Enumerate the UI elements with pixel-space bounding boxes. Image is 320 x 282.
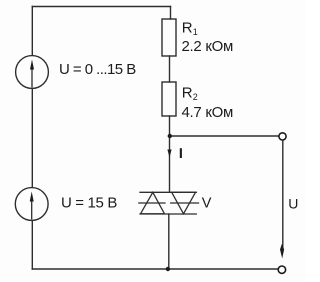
wire top rail (32, 6, 170, 8)
svg-text:4.7 кОм: 4.7 кОм (182, 104, 233, 121)
svg-text:2: 2 (193, 92, 198, 102)
wire junction down to diac (169, 136, 171, 192)
diac V (139, 192, 199, 214)
svg-text:2.2 кОм: 2.2 кОм (182, 38, 233, 55)
resistor R1 (162, 19, 176, 56)
current arrow I (167, 150, 171, 158)
svg-text:U: U (288, 195, 298, 211)
wire R2 to junction (169, 116, 171, 136)
wire right vertical (U arrow line) (282, 140, 284, 247)
svg-text:V: V (202, 196, 212, 212)
svg-text:1: 1 (193, 27, 198, 37)
wire diac to bottom rail (168, 214, 170, 269)
node junction below R2 (168, 134, 172, 138)
node junction bottom rail (166, 267, 170, 271)
voltage source U = 15 V (circle) (15, 188, 48, 221)
resistor R2 (162, 82, 176, 116)
label I (180, 148, 182, 158)
terminal bottom-right (278, 266, 285, 273)
wire R1 to R2 (169, 56, 171, 82)
bottom rail wire (32, 268, 278, 270)
wire junction to right terminal (170, 135, 279, 137)
voltage source U = 0...15 V (circle) (16, 56, 49, 89)
wire left rail (31, 7, 33, 270)
voltage arrow U (down) (280, 244, 284, 259)
wire top-right drop to R1 (170, 7, 172, 20)
svg-text:R: R (182, 19, 193, 36)
svg-text:U = 0 ...15 В: U = 0 ...15 В (59, 61, 136, 78)
svg-text:R: R (182, 84, 193, 101)
terminal top-right (279, 133, 286, 140)
svg-text:U = 15 В: U = 15 В (61, 195, 117, 212)
